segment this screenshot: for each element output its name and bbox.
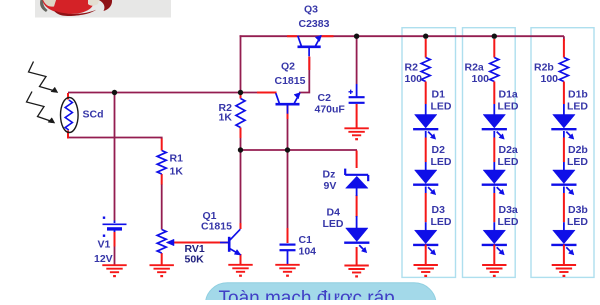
- svg-text:100: 100: [405, 73, 423, 85]
- svg-text:100: 100: [541, 73, 559, 85]
- svg-text:D4: D4: [327, 207, 341, 219]
- svg-text:D3: D3: [432, 204, 446, 216]
- svg-text:470uF: 470uF: [315, 104, 346, 116]
- svg-text:SCd: SCd: [83, 109, 104, 121]
- svg-text:Dz: Dz: [323, 169, 336, 181]
- svg-text:D3b: D3b: [568, 204, 588, 216]
- svg-text:LED: LED: [567, 156, 588, 168]
- svg-text:1K: 1K: [170, 166, 184, 178]
- svg-text:D2a: D2a: [499, 144, 518, 156]
- svg-text:LED: LED: [567, 216, 588, 228]
- svg-text:D1a: D1a: [499, 89, 518, 101]
- svg-text:LED: LED: [498, 156, 519, 168]
- svg-text:1K: 1K: [219, 112, 233, 124]
- svg-text:D2b: D2b: [568, 144, 588, 156]
- svg-text:9V: 9V: [324, 180, 337, 192]
- svg-text:LED: LED: [431, 216, 452, 228]
- svg-text:R2b: R2b: [534, 62, 554, 74]
- svg-text:R2: R2: [405, 62, 419, 74]
- svg-text:D3a: D3a: [499, 204, 518, 216]
- svg-text:LED: LED: [498, 100, 519, 112]
- svg-text:50K: 50K: [185, 254, 205, 266]
- svg-text:LED: LED: [567, 100, 588, 112]
- svg-text:C2383: C2383: [299, 18, 330, 30]
- svg-text:V1: V1: [98, 239, 111, 251]
- svg-text:LED: LED: [431, 100, 452, 112]
- svg-text:LED: LED: [323, 218, 344, 230]
- svg-text:C2: C2: [318, 92, 332, 104]
- svg-text:Toàn mạch được ráp: Toàn mạch được ráp: [219, 288, 395, 300]
- svg-text:R2a: R2a: [465, 62, 484, 74]
- svg-text:LED: LED: [498, 216, 519, 228]
- svg-text:12V: 12V: [94, 253, 113, 265]
- svg-text:D1b: D1b: [568, 89, 588, 101]
- svg-text:LED: LED: [431, 156, 452, 168]
- svg-text:D2: D2: [432, 144, 446, 156]
- svg-text:D1: D1: [432, 89, 446, 101]
- svg-text:104: 104: [299, 246, 317, 258]
- svg-text:Q3: Q3: [304, 4, 318, 16]
- svg-text:R1: R1: [170, 153, 184, 165]
- svg-text:C1815: C1815: [275, 75, 306, 87]
- svg-text:100: 100: [472, 73, 490, 85]
- svg-text:C1: C1: [299, 234, 313, 246]
- svg-text:C1815: C1815: [201, 221, 232, 233]
- svg-text:Q2: Q2: [281, 61, 295, 73]
